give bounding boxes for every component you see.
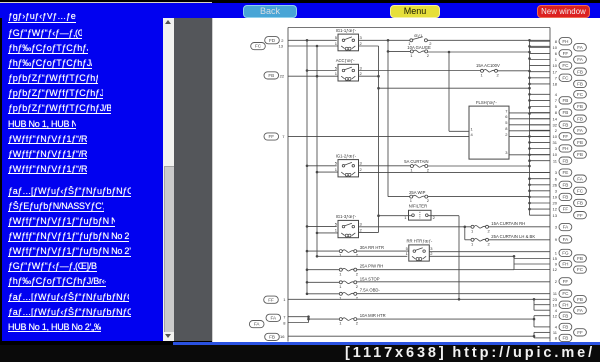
svg-text:15A STOP: 15A STOP bbox=[360, 276, 380, 281]
svg-text:FB: FB bbox=[577, 104, 583, 109]
svg-text:FA: FA bbox=[577, 307, 584, 312]
wire B1 to IG1-3 pin5 bbox=[307, 225, 337, 227]
connector FC pin 7 (right, y=77.3) bbox=[555, 74, 572, 81]
bus node B6 (x458, N/FILTER out down to FF1 net) bbox=[458, 215, 461, 300]
svg-text:1: 1 bbox=[283, 297, 286, 302]
svg-text:22: 22 bbox=[280, 73, 285, 78]
connector FF pin 2 (right, y=280.8) bbox=[555, 277, 572, 284]
svg-text:32: 32 bbox=[553, 122, 558, 127]
connector FF pin 12 (right, y=208.6) bbox=[553, 205, 572, 212]
wire IG1-1 pin3 to SW1 bbox=[359, 39, 410, 41]
svg-text:6: 6 bbox=[505, 114, 508, 119]
svg-text:FA: FA bbox=[577, 176, 584, 181]
svg-text:FB: FB bbox=[577, 152, 583, 157]
svg-text:3: 3 bbox=[555, 146, 558, 151]
svg-text:FB: FB bbox=[562, 313, 568, 318]
wire B4 to F1 bbox=[388, 50, 410, 52]
svg-text:1: 1 bbox=[335, 40, 338, 45]
svg-text:FG: FG bbox=[562, 250, 569, 255]
svg-text:7: 7 bbox=[555, 98, 558, 103]
svg-text:1: 1 bbox=[335, 166, 338, 171]
filter U-N/FILTER box bbox=[404, 203, 435, 220]
connector FB pin 16 (left) bbox=[265, 333, 286, 340]
svg-text:FLSHƒœƒ-: FLSHƒœƒ- bbox=[476, 100, 497, 105]
svg-text:FH: FH bbox=[562, 38, 568, 43]
fuse F2 15A AC100V bbox=[476, 63, 500, 77]
wire jog FC12 bbox=[514, 268, 550, 270]
wire FA8 in bbox=[288, 321, 309, 323]
svg-text:8: 8 bbox=[555, 38, 558, 43]
svg-text:19: 19 bbox=[553, 194, 558, 199]
wire B3 to bus (flasher feed) bbox=[379, 87, 530, 89]
svg-text:2: 2 bbox=[356, 283, 359, 288]
connector FA pin 1 (right, y=59.0) bbox=[555, 55, 587, 62]
svg-text:2: 2 bbox=[427, 167, 430, 172]
wire F10 out to FC11 bbox=[357, 292, 550, 294]
connector FB pin 15 (right, y=258.0) bbox=[553, 254, 587, 261]
fuse F7 30A RR HTR bbox=[339, 245, 384, 258]
svg-text:1: 1 bbox=[335, 227, 338, 232]
svg-text:5: 5 bbox=[555, 104, 558, 109]
svg-text:1: 1 bbox=[471, 241, 474, 246]
svg-text:FC: FC bbox=[562, 75, 569, 80]
svg-text:FC: FC bbox=[562, 63, 569, 68]
svg-text:8: 8 bbox=[555, 335, 558, 340]
connector FA pin 6 (right, y=178.2) bbox=[555, 175, 587, 182]
connector FC pin 12 (right, y=269.0) bbox=[553, 265, 587, 272]
wire bus jog row10 bbox=[530, 45, 551, 47]
svg-text:5: 5 bbox=[505, 120, 508, 125]
svg-text:IG1-2ƒœƒ-: IG1-2ƒœƒ- bbox=[336, 153, 357, 158]
svg-text:7: 7 bbox=[283, 314, 286, 319]
svg-text:2: 2 bbox=[497, 72, 500, 77]
wire jog FH9 bbox=[514, 263, 550, 265]
bus node B8 (x528.5 main right bus) bbox=[528, 39, 531, 215]
relay U-FLSH (FLSH riree) box bbox=[469, 100, 509, 159]
svg-text:2: 2 bbox=[356, 320, 359, 325]
relay ACC bbox=[335, 58, 363, 81]
bus jog B11 (x533 mid) bbox=[533, 315, 550, 326]
wires FLSH right pins to bus/frame bbox=[509, 112, 550, 154]
svg-text:FB: FB bbox=[577, 296, 583, 301]
svg-text:FA: FA bbox=[270, 315, 277, 320]
bus jog B10 (x533 upper) bbox=[533, 298, 550, 310]
wire IG1-2 pin3 to F3 bbox=[359, 164, 411, 166]
wire B4 to F4 bbox=[388, 195, 410, 197]
wire FA7 in bbox=[288, 315, 309, 317]
svg-text:FB: FB bbox=[562, 110, 568, 115]
svg-text:12: 12 bbox=[553, 267, 558, 272]
svg-text:2: 2 bbox=[356, 252, 359, 257]
svg-text:FD: FD bbox=[269, 37, 276, 42]
svg-text:2: 2 bbox=[360, 227, 363, 232]
svg-text:1: 1 bbox=[410, 53, 413, 58]
svg-text:FB: FB bbox=[577, 200, 583, 205]
svg-text:1: 1 bbox=[410, 167, 413, 172]
wire jog FB15 bbox=[514, 257, 550, 259]
svg-text:FF: FF bbox=[563, 51, 569, 56]
svg-text:2: 2 bbox=[360, 40, 363, 45]
connector FB pin 11 (right, y=160.2) bbox=[553, 157, 572, 164]
svg-text:FB: FB bbox=[577, 81, 583, 86]
svg-text:2: 2 bbox=[360, 71, 363, 76]
svg-text:1: 1 bbox=[555, 57, 558, 62]
svg-text:FF: FF bbox=[563, 206, 569, 211]
svg-text:FB: FB bbox=[577, 116, 583, 121]
wire B1 to IG1-2 pin5 bbox=[307, 164, 337, 166]
svg-text:1: 1 bbox=[555, 250, 558, 255]
fuse F1 10A GAUGE bbox=[407, 45, 431, 58]
connector FB pin 18 (right, y=83.4) bbox=[553, 80, 587, 87]
bus jog B9 (x513) bbox=[513, 255, 516, 270]
wire N/FILTER feed from B3 bbox=[379, 214, 412, 216]
svg-text:FB: FB bbox=[577, 69, 583, 74]
connector FE pin 3 (right, y=172.1) bbox=[555, 168, 572, 175]
wire F5 out to FA3 bbox=[489, 225, 551, 227]
svg-text:3: 3 bbox=[360, 221, 363, 226]
svg-text:11: 11 bbox=[553, 291, 558, 296]
connector FF pin 1 (left) bbox=[264, 296, 287, 303]
svg-text:2: 2 bbox=[505, 131, 508, 136]
schematic frame bbox=[288, 27, 550, 341]
bus node B7 (x463.8, curtain fuse feed) bbox=[464, 225, 467, 239]
connector FB pin 31 (right, y=141.9) bbox=[553, 138, 587, 145]
svg-text:16: 16 bbox=[280, 334, 285, 339]
svg-text:10: 10 bbox=[553, 63, 558, 68]
connector FH pin 9 (right, y=263.5) bbox=[555, 260, 572, 267]
wire F2 out to bus bbox=[498, 69, 530, 71]
wire B1 to F7 bbox=[307, 250, 339, 252]
svg-text:FA: FA bbox=[577, 57, 584, 62]
svg-text:31: 31 bbox=[553, 140, 558, 145]
wire F7 to RRHTR pin5 bbox=[357, 250, 409, 252]
svg-text:14: 14 bbox=[553, 116, 558, 121]
svg-text:1: 1 bbox=[339, 283, 342, 288]
svg-text:23: 23 bbox=[553, 296, 558, 301]
svg-text:FA: FA bbox=[254, 321, 261, 326]
svg-text:7: 7 bbox=[282, 134, 285, 139]
svg-text:15A AC100V: 15A AC100V bbox=[476, 63, 500, 68]
svg-text:1: 1 bbox=[406, 251, 409, 256]
wire F3 out to bus bbox=[428, 165, 530, 167]
connector FD pin 2 (left) bbox=[265, 36, 285, 43]
svg-text:10A MIR HTR: 10A MIR HTR bbox=[360, 312, 386, 317]
connector FB pin 8 (right, y=112.1) bbox=[555, 108, 572, 115]
wire B7 to F6 bbox=[465, 238, 471, 240]
svg-text:8: 8 bbox=[283, 320, 286, 325]
svg-text:4: 4 bbox=[555, 307, 558, 312]
bus node B1 (x306) bbox=[306, 39, 309, 295]
svg-text:3: 3 bbox=[360, 65, 363, 70]
fuse F3 5A CURTAIN bbox=[404, 159, 430, 173]
connector FA pin 2 (right, y=129.8) bbox=[555, 126, 587, 133]
svg-text:2: 2 bbox=[427, 198, 430, 203]
wire F4 out to bus bbox=[428, 195, 530, 197]
wire F8 out bbox=[357, 268, 514, 270]
svg-text:Œƒ1: Œƒ1 bbox=[414, 32, 423, 37]
svg-text:FH: FH bbox=[562, 261, 568, 266]
svg-text:2: 2 bbox=[488, 241, 491, 246]
svg-text:1: 1 bbox=[339, 271, 342, 276]
bus node B5 (x448, GAUGE out down to FLSH pin1) bbox=[448, 50, 451, 131]
svg-text:FB: FB bbox=[562, 122, 568, 127]
svg-text:6: 6 bbox=[555, 51, 558, 56]
connector FB pin 7 (right, y=99.9) bbox=[555, 96, 572, 103]
wire FB16 out bbox=[288, 335, 534, 337]
svg-text:FE: FE bbox=[562, 170, 568, 175]
svg-text:1: 1 bbox=[339, 320, 342, 325]
connector FC pin 3 (right, y=190.3) bbox=[555, 187, 587, 194]
fuse F10 7.5A OBD- bbox=[339, 287, 380, 300]
svg-text:9: 9 bbox=[555, 237, 558, 242]
connector FB pin 14 (right, y=118.2) bbox=[553, 115, 587, 122]
svg-text:FB: FB bbox=[562, 324, 568, 329]
svg-text:FC: FC bbox=[562, 291, 569, 296]
wire IG1-3 pin2 to B3 bbox=[359, 231, 379, 233]
connector FB pin 8 (right, y=337.4) bbox=[555, 334, 572, 341]
svg-text:11: 11 bbox=[553, 330, 558, 335]
svg-text:8: 8 bbox=[555, 110, 558, 115]
fuse F5 15A CURTAIN RH bbox=[471, 221, 525, 233]
svg-text:25A CURTAIN LH & BK: 25A CURTAIN LH & BK bbox=[491, 233, 535, 238]
connector FB pin 26 (right, y=184.3) bbox=[553, 181, 572, 188]
svg-text:3: 3 bbox=[360, 35, 363, 40]
svg-text:FF: FF bbox=[577, 330, 583, 335]
bus node B3 (x377.5, IG1-1/ACC coil to N/FILTER & IG1-3 coil) bbox=[377, 46, 380, 232]
svg-text:4: 4 bbox=[471, 132, 474, 137]
fuse F9 15A STOP bbox=[339, 276, 379, 289]
svg-text:26: 26 bbox=[553, 182, 558, 187]
svg-text:FB: FB bbox=[562, 158, 568, 163]
svg-text:7.5A OBD-: 7.5A OBD- bbox=[360, 287, 381, 292]
svg-text:FB: FB bbox=[562, 194, 568, 199]
svg-text:12: 12 bbox=[553, 313, 558, 318]
svg-text:1: 1 bbox=[471, 126, 474, 131]
svg-text:10: 10 bbox=[553, 302, 558, 307]
svg-text:FB: FB bbox=[269, 334, 275, 339]
connector FF pin 13 (right, y=214.7) bbox=[553, 211, 587, 218]
fuse F8 25A P/W RH bbox=[339, 263, 383, 276]
svg-text:2: 2 bbox=[360, 166, 363, 171]
wire FC13 to IG1-1 pin1 bbox=[288, 45, 338, 47]
svg-text:FC: FC bbox=[577, 188, 584, 193]
wire IG1-1 pin2 to B3 bbox=[359, 45, 379, 47]
wire FB22 to ACC pin1 bbox=[288, 75, 338, 77]
bus node B4 (x387, switch feed to GAUGE & WIP) bbox=[387, 39, 390, 197]
svg-text:10: 10 bbox=[553, 152, 558, 157]
svg-text:1: 1 bbox=[481, 72, 484, 77]
relay RR HTR (RR HTR riree) bbox=[406, 238, 434, 260]
connector FB pin 5 (right, y=106.0) bbox=[555, 102, 587, 109]
svg-text:7: 7 bbox=[555, 75, 558, 80]
connector FB pin 10 (right, y=154.1) bbox=[553, 150, 587, 157]
connector FB pin 32 (right, y=124.3) bbox=[553, 121, 572, 128]
svg-text:FB: FB bbox=[562, 182, 568, 187]
wire B2 to RRHTR pin1 bbox=[317, 255, 407, 257]
fuse F4 25A WIP bbox=[409, 189, 430, 202]
wire RRHTR pin2 to jog bbox=[429, 255, 514, 257]
svg-text:IG1-3ƒœƒ-: IG1-3ƒœƒ- bbox=[336, 214, 357, 219]
wire FD2 to IG1-1 pin5 bbox=[288, 39, 337, 41]
svg-text:5: 5 bbox=[335, 221, 338, 226]
connector FA pin 3 (right, y=226.6) bbox=[555, 223, 572, 230]
connector FC pin 4 (right, y=93.8) bbox=[555, 90, 587, 97]
connector FF pin 10 (right, y=135.9) bbox=[553, 132, 572, 139]
svg-text:FF: FF bbox=[268, 134, 274, 139]
connector FA pin 9 (right, y=238.9) bbox=[555, 235, 572, 242]
connector FH pin 10 (right, y=304.2) bbox=[553, 301, 572, 308]
connector FA pin 8 (left) bbox=[249, 320, 286, 327]
svg-text:2: 2 bbox=[427, 53, 430, 58]
svg-text:17: 17 bbox=[553, 69, 558, 74]
svg-text:7: 7 bbox=[505, 108, 508, 113]
relay IG1-2 bbox=[335, 153, 363, 177]
svg-text:15A CURTAIN RH: 15A CURTAIN RH bbox=[491, 221, 525, 226]
svg-text:18: 18 bbox=[553, 81, 558, 86]
wire B2 to IG1-3 pin1 bbox=[317, 231, 338, 233]
bus jog B12 (x533 lower) bbox=[533, 332, 550, 338]
svg-text:5A CURTAIN: 5A CURTAIN bbox=[404, 159, 428, 164]
wire F11 out bbox=[357, 318, 534, 320]
svg-text:20: 20 bbox=[553, 200, 558, 205]
connector FB pin 23 (right, y=298.7) bbox=[553, 295, 587, 302]
svg-text:FC: FC bbox=[577, 91, 584, 96]
connector FC pin 13 (left) bbox=[251, 42, 284, 49]
svg-text:FB: FB bbox=[268, 73, 274, 78]
svg-text:FB: FB bbox=[562, 335, 568, 340]
relay IG1-3 bbox=[335, 214, 363, 238]
wire stubs from main bus to right frame pins bbox=[530, 41, 551, 215]
wire B1 to F9 bbox=[307, 281, 339, 283]
svg-text:1: 1 bbox=[339, 252, 342, 257]
relay IG1-1 (IG1-1 riree) bbox=[335, 27, 363, 50]
wire B1 to ACC pin5 bbox=[307, 69, 337, 71]
svg-text:FA: FA bbox=[563, 224, 570, 229]
svg-text:FH: FH bbox=[562, 302, 568, 307]
svg-text:12: 12 bbox=[553, 206, 558, 211]
svg-text:10: 10 bbox=[553, 44, 558, 49]
wire IG1-3 pin3 to curtain fuses bbox=[359, 225, 472, 227]
svg-text:FF: FF bbox=[563, 134, 569, 139]
connector FB pin 4 (right, y=326.4) bbox=[555, 323, 572, 330]
switch SW1 (an-1 ignition switch) bbox=[408, 32, 432, 45]
connector FB pin 22 (left) bbox=[264, 71, 285, 78]
svg-text:3: 3 bbox=[360, 160, 363, 165]
svg-text:13: 13 bbox=[279, 43, 284, 48]
svg-text:13: 13 bbox=[553, 212, 558, 217]
svg-text:10A GAUGE: 10A GAUGE bbox=[407, 45, 431, 50]
svg-text:FF: FF bbox=[577, 212, 583, 217]
svg-text:10: 10 bbox=[553, 134, 558, 139]
svg-text:FA: FA bbox=[577, 44, 584, 49]
wire F1 out to bus bbox=[428, 51, 530, 53]
connector FA pin 10 (right, y=46.8) bbox=[553, 43, 587, 50]
connector FF pin 7 (left) bbox=[264, 132, 285, 139]
svg-text:4: 4 bbox=[555, 91, 558, 96]
connector FF pin 6 (right, y=52.9) bbox=[555, 49, 572, 56]
svg-text:ACCƒœƒ-: ACCƒœƒ- bbox=[336, 58, 355, 63]
svg-text:15: 15 bbox=[553, 256, 558, 261]
svg-text:N/FILTER: N/FILTER bbox=[409, 203, 427, 208]
svg-text:9: 9 bbox=[555, 261, 558, 266]
connector FC pin 11 (right, y=293.1) bbox=[553, 290, 572, 297]
svg-text:1: 1 bbox=[471, 228, 474, 233]
svg-text:2: 2 bbox=[555, 278, 558, 283]
connector FB pin 20 (right, y=202.5) bbox=[553, 199, 587, 206]
svg-text:IG1-1ƒœƒ-: IG1-1ƒœƒ- bbox=[336, 27, 357, 32]
wire SW1 out to bus bbox=[427, 39, 550, 41]
svg-text:FC: FC bbox=[577, 267, 584, 272]
connector FA pin 7 (left) bbox=[266, 314, 286, 321]
svg-text:FH: FH bbox=[562, 146, 568, 151]
svg-text:FB: FB bbox=[577, 256, 583, 261]
wire ACC pin2 to B3 bbox=[359, 75, 379, 77]
wire MIR HTR feed bbox=[309, 318, 340, 320]
svg-text:11: 11 bbox=[553, 158, 558, 163]
svg-text:4: 4 bbox=[555, 324, 558, 329]
svg-text:5: 5 bbox=[335, 35, 338, 40]
wire IG1-2 pin2 to FE3 bbox=[359, 171, 551, 173]
svg-text:FA: FA bbox=[563, 237, 570, 242]
wire B2 to IG1-2 pin1 bbox=[317, 171, 338, 173]
wire FLSH pin1 feed bbox=[449, 130, 469, 132]
connector FF pin 11 (right, y=331.9) bbox=[553, 328, 587, 335]
svg-text:3: 3 bbox=[555, 188, 558, 193]
svg-text:3: 3 bbox=[505, 150, 508, 155]
svg-text:2: 2 bbox=[281, 37, 284, 42]
svg-text:FF: FF bbox=[563, 278, 569, 283]
svg-text:RR HTRƒœƒ-: RR HTRƒœƒ- bbox=[407, 238, 433, 243]
fuse F6 25A CURTAIN LH &amp; BK bbox=[471, 233, 535, 246]
connector FB pin 17 (right, y=71.2) bbox=[553, 68, 587, 75]
fuse F11 10A MIR HTR bbox=[339, 312, 385, 325]
bus node B2 (x316) bbox=[316, 44, 319, 257]
svg-text:2: 2 bbox=[555, 127, 558, 132]
connector FC pin 10 (right, y=65.1) bbox=[553, 61, 572, 68]
svg-text:5: 5 bbox=[335, 160, 338, 165]
connector FA pin 4 (right, y=309.7) bbox=[555, 306, 587, 313]
connector FG pin 1 (right, y=252.5) bbox=[555, 249, 572, 256]
connector FH pin 8 (right, y=40.7) bbox=[555, 37, 572, 44]
svg-text:25A P/W RH: 25A P/W RH bbox=[360, 263, 384, 268]
junction vertical FA7/FA8 bbox=[307, 315, 310, 322]
connector FB pin 12 (right, y=315.2) bbox=[553, 312, 572, 319]
wire B1 to F10 bbox=[307, 292, 339, 294]
wire F9 out to FF2 bbox=[357, 280, 550, 282]
connector FH pin 3 (right, y=148.0) bbox=[555, 144, 572, 151]
svg-text:25A WIP: 25A WIP bbox=[409, 189, 425, 194]
wire N/FILTER out to B6 bbox=[428, 214, 459, 216]
connector FB pin 19 (right, y=196.4) bbox=[553, 193, 572, 200]
svg-text:2: 2 bbox=[488, 228, 491, 233]
svg-text:FC: FC bbox=[255, 43, 262, 48]
wire F6 out to FA9 bbox=[489, 238, 551, 240]
wire FF7 to FLSH pin4 bbox=[288, 135, 469, 137]
svg-text:2: 2 bbox=[356, 271, 359, 276]
svg-text:FB: FB bbox=[577, 140, 583, 145]
svg-text:3: 3 bbox=[555, 170, 558, 175]
wire ACC pin3 to F2 bbox=[359, 69, 481, 71]
svg-text:6: 6 bbox=[555, 176, 558, 181]
svg-text:1: 1 bbox=[335, 71, 338, 76]
svg-text:FA: FA bbox=[577, 127, 584, 132]
wire RRHTR pin3 to FG1 bbox=[429, 250, 550, 252]
svg-text:FF: FF bbox=[268, 297, 274, 302]
svg-text:30A RR HTR: 30A RR HTR bbox=[360, 245, 384, 250]
svg-text:3: 3 bbox=[555, 224, 558, 229]
svg-text:8: 8 bbox=[505, 126, 508, 131]
wire B1 to F8 bbox=[307, 268, 339, 270]
